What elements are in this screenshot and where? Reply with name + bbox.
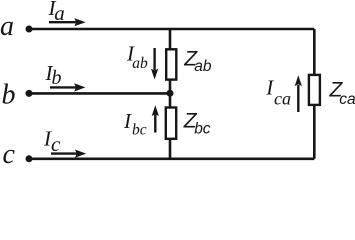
svg-text:ca: ca [274,89,291,109]
svg-text:a: a [0,11,14,42]
svg-text:c: c [51,132,61,156]
terminal node c (dot) [26,155,33,162]
svg-text:b: b [2,80,16,111]
wire: middle vertical branch (a to c through Zab, Zbc) [169,29,172,159]
impedance Zbc (box) [166,108,176,139]
label current Ic [43,126,61,156]
svg-text:bc: bc [194,121,211,138]
impedance Zca (box) [309,75,320,105]
terminal node b (dot) [26,90,33,97]
wire: phase line c [29,158,314,161]
svg-text:a: a [54,1,65,25]
label impedance Zab [183,47,212,75]
label current Ibc [123,109,147,138]
wire: right vertical branch (a to c through Zca) [313,29,316,159]
current arrow Ica (up) [295,75,302,112]
current arrow Ib [50,83,85,91]
junction node b on branch (dot) [167,90,174,97]
terminal node a (dot) [26,26,33,33]
label current Ia [48,0,65,25]
label current Iab [126,41,148,72]
impedance Zab (box) [166,49,176,79]
label impedance Zbc [183,109,211,137]
wire: phase line b [29,92,170,95]
current arrow Ia [49,18,86,26]
svg-text:ca: ca [339,91,355,108]
svg-text:c: c [3,139,16,166]
wire: phase line a [29,28,314,31]
svg-text:I: I [123,109,132,133]
current arrow Ic [51,150,86,158]
current arrow Iab (down) [151,48,158,80]
svg-text:b: b [52,67,62,89]
label current Ib [45,61,62,89]
label current Ica [265,76,291,109]
label impedance Zca [329,79,355,108]
svg-text:ab: ab [194,58,212,75]
svg-text:I: I [265,76,274,100]
svg-text:ab: ab [132,55,148,72]
svg-text:bc: bc [132,122,147,139]
current arrow Ibc (up) [152,105,159,132]
